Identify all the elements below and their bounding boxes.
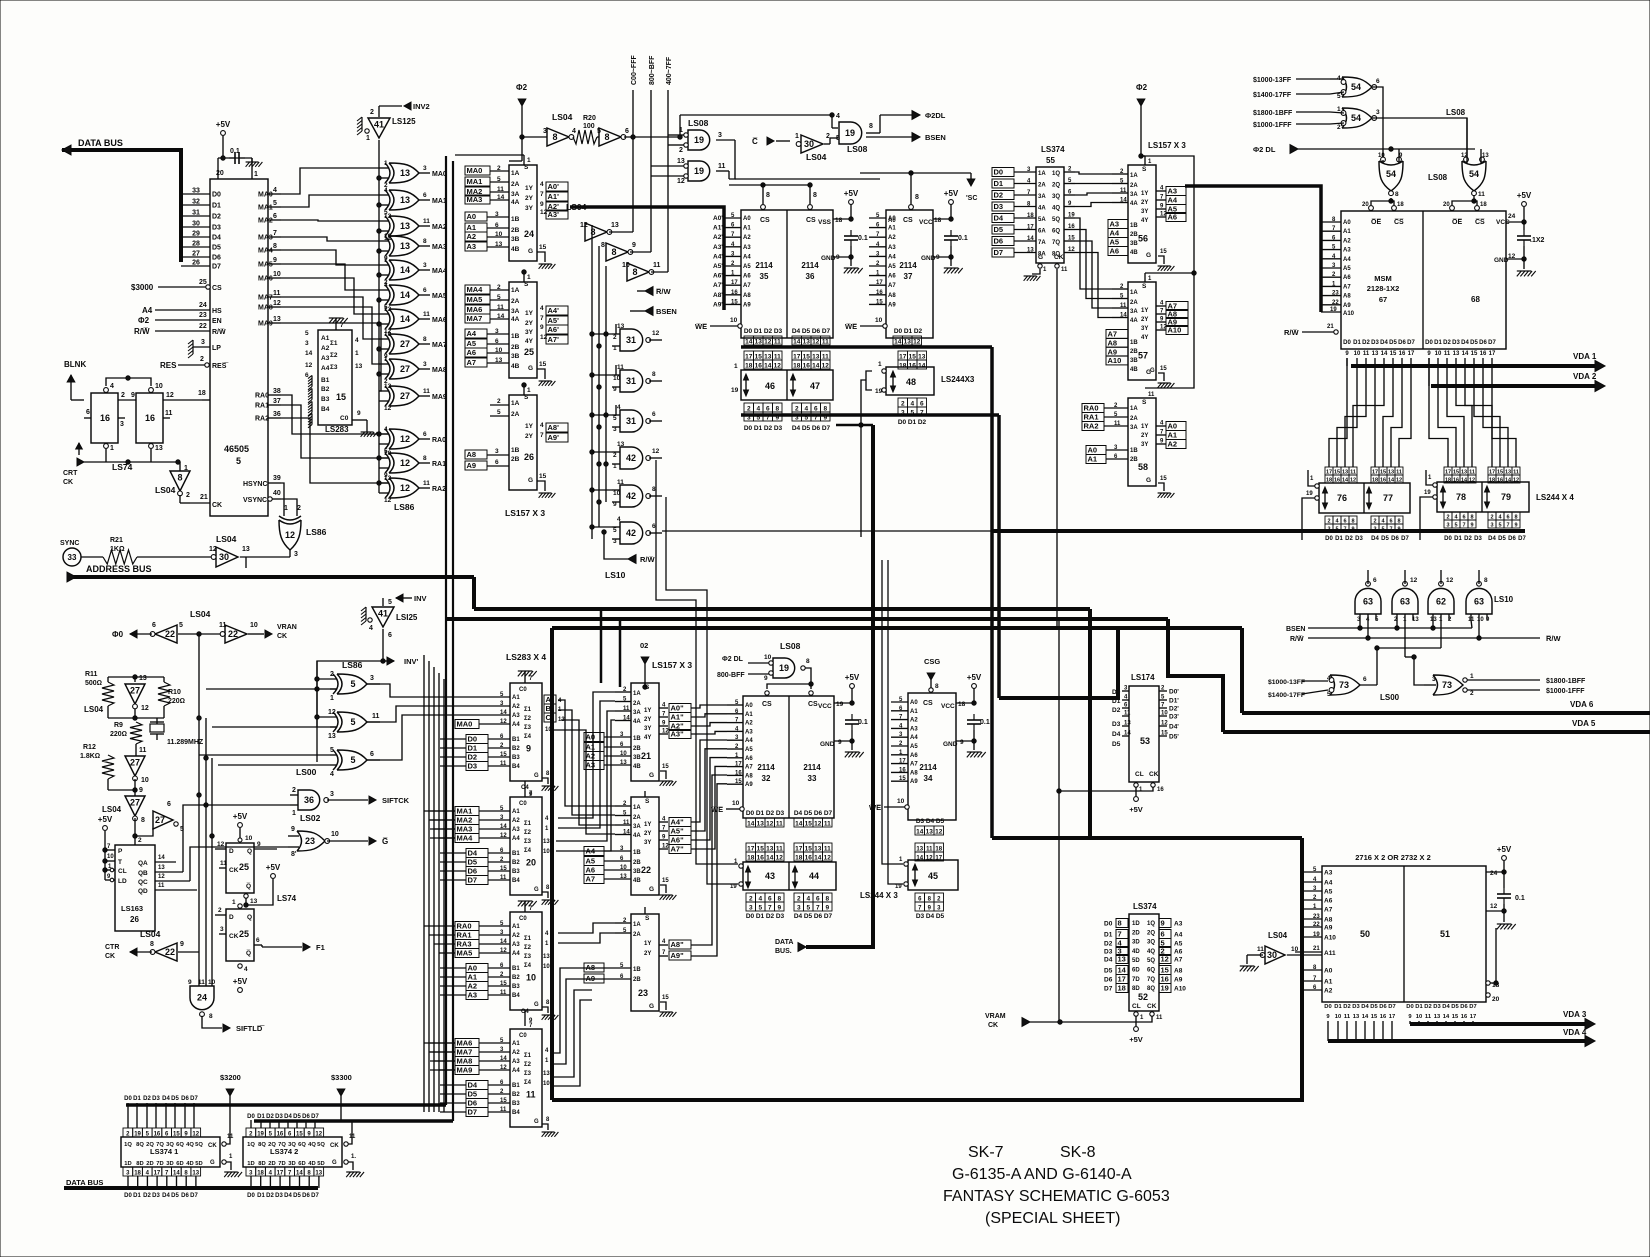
- svg-text:D7: D7: [1104, 986, 1113, 993]
- inverter 8 LS04 f: [627, 263, 649, 281]
- svg-text:MA4: MA4: [467, 285, 484, 294]
- bus thick y347 stub: [741, 345, 992, 349]
- svg-text:2B: 2B: [511, 456, 520, 463]
- node VDA3 (thick): [1410, 1022, 1587, 1026]
- svg-text:14: 14: [158, 855, 165, 861]
- svg-text:Σ2: Σ2: [524, 716, 532, 722]
- svg-text:11: 11: [774, 354, 781, 361]
- svg-text:RA1: RA1: [457, 931, 472, 940]
- svg-text:7Q: 7Q: [1052, 240, 1060, 246]
- svg-text:O̅E̅: O̅E̅: [1452, 218, 1463, 226]
- svg-text:18: 18: [793, 363, 801, 370]
- svg-text:CS: CS: [903, 217, 913, 224]
- mux22 outputs: [659, 821, 668, 823]
- svg-text:D5: D5: [804, 913, 813, 920]
- svg-text:+5V: +5V: [233, 812, 248, 821]
- svg-text:D1: D1: [754, 425, 763, 432]
- svg-text:33: 33: [68, 553, 77, 562]
- svg-text:MA0: MA0: [258, 192, 273, 199]
- RAM32 pin boxes: [746, 818, 756, 827]
- svg-text:2Y: 2Y: [644, 717, 651, 723]
- svg-text:21: 21: [641, 751, 651, 761]
- svg-text:15: 15: [803, 354, 811, 361]
- wire counter feedback rails: [198, 634, 200, 986]
- svg-text:A1: A1: [745, 712, 753, 718]
- svg-text:1: 1: [254, 171, 258, 178]
- svg-text:9: 9: [764, 675, 768, 682]
- svg-text:27: 27: [400, 364, 410, 374]
- svg-text:D2: D2: [1104, 941, 1113, 948]
- wire 54d to OE/CS: [1473, 196, 1475, 201]
- svg-text:O̅E̅: O̅E̅: [1371, 218, 1382, 226]
- svg-text:27: 27: [400, 339, 410, 349]
- svg-text:10: 10: [543, 964, 550, 970]
- svg-text:12: 12: [209, 546, 217, 553]
- svg-text:3B: 3B: [511, 236, 520, 243]
- svg-text:A5: A5: [467, 339, 477, 348]
- svg-text:7Q: 7Q: [156, 1142, 164, 1148]
- svg-text:11: 11: [158, 883, 165, 889]
- mux LS157 57: [1128, 282, 1156, 380]
- inverter 22 LS04 d (CTR CK): [155, 943, 177, 961]
- svg-text:Φ0: Φ0: [112, 630, 124, 639]
- svg-text:220Ω: 220Ω: [168, 698, 185, 705]
- node VDA2 (thick): [1431, 384, 1597, 388]
- svg-text:2: 2: [370, 109, 374, 116]
- svg-text:39: 39: [273, 475, 281, 482]
- wire QA to LS00: [183, 805, 290, 872]
- svg-text:+5V: +5V: [844, 189, 859, 198]
- buffer 78/79 pin boxes top: [1444, 467, 1452, 475]
- svg-text:D1: D1: [756, 913, 765, 920]
- svg-text:D4: D4: [926, 818, 935, 825]
- svg-text:D7: D7: [212, 264, 221, 271]
- svg-text:13: 13: [273, 316, 281, 323]
- svg-text:A3": A3": [671, 730, 685, 739]
- ground at LP pin 3: [192, 340, 194, 354]
- svg-text:13: 13: [764, 354, 772, 361]
- svg-text:23: 23: [1332, 291, 1339, 297]
- svg-text:QA: QA: [138, 860, 148, 867]
- svg-text:3: 3: [613, 426, 617, 433]
- svg-text:9: 9: [188, 979, 192, 986]
- svg-text:LS163: LS163: [121, 904, 143, 913]
- svg-text:5: 5: [1454, 523, 1457, 529]
- svg-text:2B: 2B: [1130, 232, 1138, 238]
- svg-text:1A: 1A: [1130, 406, 1138, 412]
- svg-text:VCC: VCC: [919, 219, 933, 226]
- flip-flop 16a (LS74): [91, 393, 118, 443]
- svg-text:A8: A8: [467, 450, 477, 459]
- svg-text:LS02: LS02: [300, 813, 321, 823]
- inverter 8 LS04 e: [606, 243, 628, 261]
- svg-text:56: 56: [1138, 233, 1148, 243]
- svg-text:R/W̅: R/W̅: [640, 555, 656, 564]
- svg-text:8D: 8D: [136, 1161, 143, 1167]
- svg-text:16: 16: [909, 363, 917, 370]
- mux56 outputs: [1156, 190, 1166, 192]
- svg-text:4Q: 4Q: [1147, 949, 1155, 955]
- svg-text:A1: A1: [743, 226, 751, 232]
- svg-text:A7: A7: [1324, 907, 1333, 914]
- svg-text:$3200: $3200: [220, 1073, 241, 1082]
- svg-text:F1: F1: [316, 943, 325, 952]
- svg-text:13: 13: [495, 357, 503, 364]
- svg-text:8: 8: [611, 247, 616, 257]
- node R/W arrow low: [628, 555, 636, 564]
- svg-text:5Q: 5Q: [195, 1142, 203, 1148]
- svg-text:Σ1: Σ1: [330, 340, 338, 347]
- svg-text:G: G: [528, 477, 533, 484]
- svg-text:15: 15: [539, 244, 547, 251]
- svg-text:D4: D4: [212, 235, 221, 242]
- svg-text:31: 31: [626, 335, 636, 345]
- svg-text:16: 16: [876, 290, 883, 296]
- svg-text:3D: 3D: [166, 1161, 173, 1167]
- svg-text:14: 14: [497, 313, 505, 320]
- svg-text:15: 15: [1371, 1014, 1378, 1020]
- xor gate 5 LS86 c: [333, 750, 338, 770]
- svg-text:CK: CK: [63, 479, 73, 486]
- svg-text:D6: D6: [1508, 536, 1516, 542]
- svg-text:11: 11: [1344, 1014, 1351, 1020]
- bus thick ADDRESS BUS drop x474: [472, 577, 476, 609]
- svg-text:15: 15: [1390, 351, 1397, 357]
- svg-text:1Y: 1Y: [525, 423, 534, 430]
- svg-text:A3: A3: [512, 942, 520, 948]
- svg-text:15: 15: [539, 361, 547, 368]
- svg-text:1B: 1B: [1130, 340, 1138, 346]
- svg-text:14: 14: [623, 716, 630, 722]
- wire SC junction: [909, 171, 913, 175]
- svg-text:RES̅̅̅: RES̅̅̅: [212, 362, 228, 370]
- svg-text:1Y: 1Y: [1141, 191, 1148, 197]
- svg-text:13: 13: [1353, 1014, 1360, 1020]
- svg-text:MA9: MA9: [457, 1066, 473, 1075]
- svg-text:44: 44: [809, 871, 819, 881]
- svg-text:$3000: $3000: [131, 283, 154, 292]
- bus thick y628: [552, 626, 1242, 630]
- svg-text:12: 12: [822, 363, 830, 370]
- svg-text:D6: D6: [1104, 977, 1113, 984]
- or gate 54 c (vertical): [1379, 161, 1403, 191]
- svg-text:9: 9: [131, 392, 135, 399]
- svg-text:LSI25: LSI25: [396, 613, 418, 622]
- svg-text:D3: D3: [916, 818, 925, 825]
- MSM address pins: [1321, 221, 1341, 223]
- mux22 inputs: [615, 805, 631, 807]
- svg-text:B4: B4: [321, 406, 330, 413]
- svg-text:G-6135-A AND G-6140-A: G-6135-A AND G-6140-A: [952, 1166, 1132, 1183]
- svg-text:BSEN: BSEN: [1286, 626, 1305, 633]
- svg-text:78: 78: [1456, 492, 1466, 502]
- svg-text:.1X2: .1X2: [1530, 237, 1545, 244]
- svg-text:4Q: 4Q: [186, 1142, 194, 1148]
- svg-text:+5V: +5V: [266, 863, 281, 872]
- svg-text:CS: CS: [806, 217, 816, 224]
- svg-text:D0: D0: [898, 419, 907, 426]
- svg-text:15: 15: [1452, 1014, 1459, 1020]
- svg-text:52: 52: [1138, 992, 1148, 1002]
- buffer 76/77 body: [1319, 483, 1410, 513]
- svg-text:13: 13: [620, 760, 627, 766]
- svg-text:3Q: 3Q: [288, 1142, 296, 1148]
- svg-text:D7: D7: [822, 425, 831, 432]
- svg-text:D2: D2: [918, 419, 927, 426]
- wire MA6 route: [281, 278, 379, 314]
- nand gate 19 LS08 a: [688, 130, 710, 150]
- svg-text:D0: D0: [1104, 921, 1113, 928]
- svg-text:4A: 4A: [633, 833, 641, 839]
- FF25b F1 out: [254, 944, 262, 946]
- nand gate 42 #2: [620, 485, 643, 507]
- svg-text:A3: A3: [888, 245, 896, 251]
- svg-text:4: 4: [617, 516, 621, 523]
- svg-text:1Q: 1Q: [124, 1142, 132, 1148]
- svg-text:1: 1: [366, 135, 370, 142]
- svg-text:13: 13: [1412, 617, 1419, 623]
- capacitor 0.1 at 2114 36: [850, 230, 852, 236]
- svg-text:6: 6: [86, 409, 90, 416]
- latch LS374 2 body: [243, 1137, 342, 1167]
- svg-text:A1: A1: [467, 223, 477, 232]
- svg-text:11: 11: [824, 821, 831, 828]
- svg-text:VDA 5: VDA 5: [1572, 719, 1596, 728]
- svg-text:$1000-13FF: $1000-13FF: [1268, 679, 1305, 686]
- svg-text:A8: A8: [745, 773, 753, 779]
- svg-text:18: 18: [1397, 202, 1404, 208]
- svg-text:G: G: [1038, 254, 1043, 261]
- wires left feed vertical bundle: [423, 655, 425, 1112]
- svg-text:HSYNC: HSYNC: [243, 481, 268, 488]
- svg-text:A3: A3: [512, 713, 520, 719]
- mux23 S link: [644, 907, 646, 914]
- svg-text:A3: A3: [1168, 187, 1178, 196]
- svg-text:11: 11: [623, 706, 630, 712]
- svg-text:A9': A9': [713, 301, 723, 308]
- nand gate 63 #2: [1392, 588, 1418, 614]
- latch LS374 1 pin boxes bottom: [123, 1167, 133, 1176]
- svg-text:19: 19: [694, 135, 704, 145]
- mux LS157 23: [631, 914, 659, 1011]
- svg-text:6: 6: [370, 751, 374, 758]
- svg-text:22: 22: [165, 947, 175, 957]
- mux57 outputs: [1156, 305, 1166, 307]
- svg-text:3D: 3D: [288, 1161, 295, 1167]
- svg-text:D5: D5: [1104, 968, 1113, 975]
- RAM35 pin boxes: [744, 336, 754, 345]
- svg-text:14: 14: [764, 363, 772, 370]
- svg-text:D7: D7: [1388, 1004, 1395, 1010]
- svg-text:D3: D3: [275, 1193, 283, 1199]
- xor gate 13 output MA0: [385, 163, 390, 183]
- adder LS283 11: [510, 1029, 542, 1127]
- svg-text:3: 3: [495, 211, 499, 218]
- wire RA1 route: [281, 405, 389, 458]
- svg-text:A1': A1': [548, 192, 560, 201]
- svg-text:2114: 2114: [801, 261, 819, 270]
- adder LS283 15: [318, 330, 352, 425]
- flip-flop 16b (LS74): [136, 393, 163, 443]
- svg-text:3: 3: [423, 165, 427, 172]
- svg-text:2: 2: [121, 392, 125, 399]
- svg-text:10: 10: [141, 777, 149, 784]
- svg-text:B2: B2: [512, 860, 520, 866]
- svg-text:VSYNC: VSYNC: [243, 497, 267, 504]
- bus thick x1090 to y838: [1088, 609, 1092, 838]
- svg-text:8: 8: [632, 267, 637, 277]
- svg-text:36: 36: [806, 272, 815, 281]
- svg-text:13: 13: [400, 221, 410, 231]
- svg-text:Σ2: Σ2: [330, 352, 338, 359]
- svg-text:9: 9: [180, 941, 184, 948]
- svg-text:CK: CK: [229, 933, 239, 940]
- svg-text:SK-7: SK-7: [968, 1144, 1004, 1161]
- svg-text:1: 1: [527, 387, 531, 394]
- svg-text:R11: R11: [85, 671, 98, 678]
- svg-text:ADDRESS BUS: ADDRESS BUS: [86, 564, 152, 574]
- svg-text:5: 5: [497, 294, 501, 301]
- svg-text:B3: B3: [512, 755, 520, 761]
- svg-text:14: 14: [1120, 198, 1127, 204]
- svg-text:CK: CK: [988, 1022, 998, 1029]
- svg-text:4: 4: [540, 305, 544, 312]
- svg-text:5: 5: [1327, 691, 1331, 698]
- svg-text:18: 18: [958, 701, 966, 708]
- svg-text:55: 55: [1046, 156, 1055, 165]
- svg-text:BUS.: BUS.: [775, 948, 792, 955]
- svg-text:12: 12: [1490, 903, 1498, 910]
- svg-text:D0: D0: [1343, 340, 1351, 346]
- svg-text:Σ3: Σ3: [524, 725, 532, 731]
- svg-text:A4': A4': [713, 253, 723, 260]
- svg-text:1: 1: [527, 274, 531, 281]
- svg-text:9: 9: [1514, 523, 1517, 529]
- svg-text:VRAN: VRAN: [277, 624, 297, 631]
- svg-text:13: 13: [158, 865, 165, 871]
- svg-text:1B: 1B: [511, 447, 520, 454]
- wires A8"-A9" to RAM32: [691, 775, 727, 945]
- svg-text:1B: 1B: [633, 850, 641, 856]
- svg-text:A8: A8: [888, 293, 896, 299]
- svg-text:30: 30: [192, 221, 200, 228]
- svg-text:D5: D5: [468, 858, 478, 867]
- svg-text:2B: 2B: [511, 227, 520, 234]
- svg-text:D6: D6: [1479, 340, 1487, 346]
- svg-text:12: 12: [166, 392, 174, 399]
- svg-text:13: 13: [1434, 1014, 1441, 1020]
- svg-text:LS244X3: LS244X3: [941, 375, 975, 384]
- svg-text:A9: A9: [745, 782, 753, 788]
- svg-text:D1: D1: [754, 328, 763, 335]
- wire osc mid rail: [107, 706, 109, 718]
- svg-text:13: 13: [328, 733, 336, 740]
- svg-text:A0: A0: [468, 964, 478, 973]
- svg-text:2114: 2114: [803, 763, 821, 772]
- inverter 27 LS04 osc3: [125, 796, 145, 816]
- svg-text:36: 36: [304, 795, 314, 805]
- svg-text:LS10: LS10: [605, 570, 626, 580]
- svg-text:12: 12: [500, 719, 507, 725]
- svg-text:D4: D4: [284, 1193, 292, 1199]
- svg-text:A4: A4: [321, 365, 330, 372]
- wires 10 outputs to 23 inputs: [558, 923, 615, 933]
- svg-text:16: 16: [735, 770, 742, 776]
- svg-text:6: 6: [816, 896, 820, 903]
- svg-text:S: S: [524, 281, 529, 288]
- svg-text:11: 11: [526, 1090, 536, 1100]
- svg-text:A7': A7': [548, 335, 560, 344]
- svg-text:D1: D1: [468, 744, 478, 753]
- svg-text:10: 10: [622, 262, 630, 269]
- svg-text:27: 27: [155, 815, 165, 825]
- svg-text:14: 14: [500, 710, 507, 716]
- ROM 2716/2732 50/51 body: [1322, 866, 1486, 1002]
- buffer 48 body: [886, 367, 934, 395]
- svg-text:22: 22: [1313, 922, 1320, 928]
- svg-text:11: 11: [423, 218, 430, 225]
- svg-text:R̅/W: R̅/W: [1545, 634, 1561, 643]
- svg-text:19: 19: [1424, 490, 1431, 496]
- svg-text:14: 14: [795, 821, 803, 828]
- svg-text:C0: C0: [340, 415, 349, 422]
- svg-text:G: G: [534, 1119, 539, 1125]
- svg-text:220Ω: 220Ω: [110, 731, 127, 738]
- svg-text:VDA 1: VDA 1: [1573, 352, 1597, 361]
- wire FF clock drops: [105, 449, 107, 462]
- svg-text:4: 4: [806, 896, 810, 903]
- svg-text:46: 46: [765, 381, 775, 391]
- svg-text:5: 5: [273, 200, 277, 207]
- svg-text:A5: A5: [1324, 889, 1333, 896]
- wire enable staircase A: [656, 460, 738, 864]
- svg-text:24: 24: [199, 302, 207, 309]
- bus thick x1118 staircase: [999, 628, 1118, 698]
- svg-text:4: 4: [540, 422, 544, 429]
- svg-text:3Y: 3Y: [1141, 442, 1148, 448]
- svg-text:D1: D1: [1335, 536, 1343, 542]
- svg-text:27: 27: [192, 251, 200, 258]
- svg-text:LS283 X 4: LS283 X 4: [506, 652, 546, 662]
- svg-text:$1000-13FF: $1000-13FF: [1253, 77, 1292, 84]
- svg-text:A2: A2: [512, 818, 520, 824]
- svg-text:14: 14: [793, 339, 801, 346]
- svg-text:14: 14: [918, 363, 926, 370]
- svg-text:B3: B3: [512, 1101, 520, 1107]
- svg-text:13: 13: [812, 354, 820, 361]
- svg-text:CL: CL: [118, 868, 127, 875]
- svg-text:A6: A6: [1168, 213, 1178, 222]
- svg-text:D5: D5: [468, 1090, 478, 1099]
- svg-text:LS244 X 4: LS244 X 4: [1536, 493, 1574, 502]
- svg-text:D7: D7: [190, 1096, 198, 1102]
- svg-text:A1: A1: [468, 973, 478, 982]
- svg-text:A3: A3: [1174, 921, 1183, 928]
- svg-text:D1: D1: [257, 1114, 265, 1120]
- svg-text:9: 9: [540, 324, 544, 331]
- ROM left pins: [1304, 871, 1322, 873]
- RAM36 CS pin: [808, 205, 813, 210]
- svg-text:6Q: 6Q: [298, 1142, 306, 1148]
- svg-text:D4: D4: [1371, 536, 1379, 542]
- svg-text:G: G: [1146, 252, 1151, 259]
- svg-text:63: 63: [1474, 597, 1484, 607]
- svg-text:47: 47: [810, 381, 820, 391]
- svg-text:B1: B1: [512, 851, 520, 857]
- svg-text:22: 22: [228, 629, 238, 639]
- svg-text:3A: 3A: [1130, 192, 1138, 198]
- svg-text:4: 4: [572, 128, 576, 135]
